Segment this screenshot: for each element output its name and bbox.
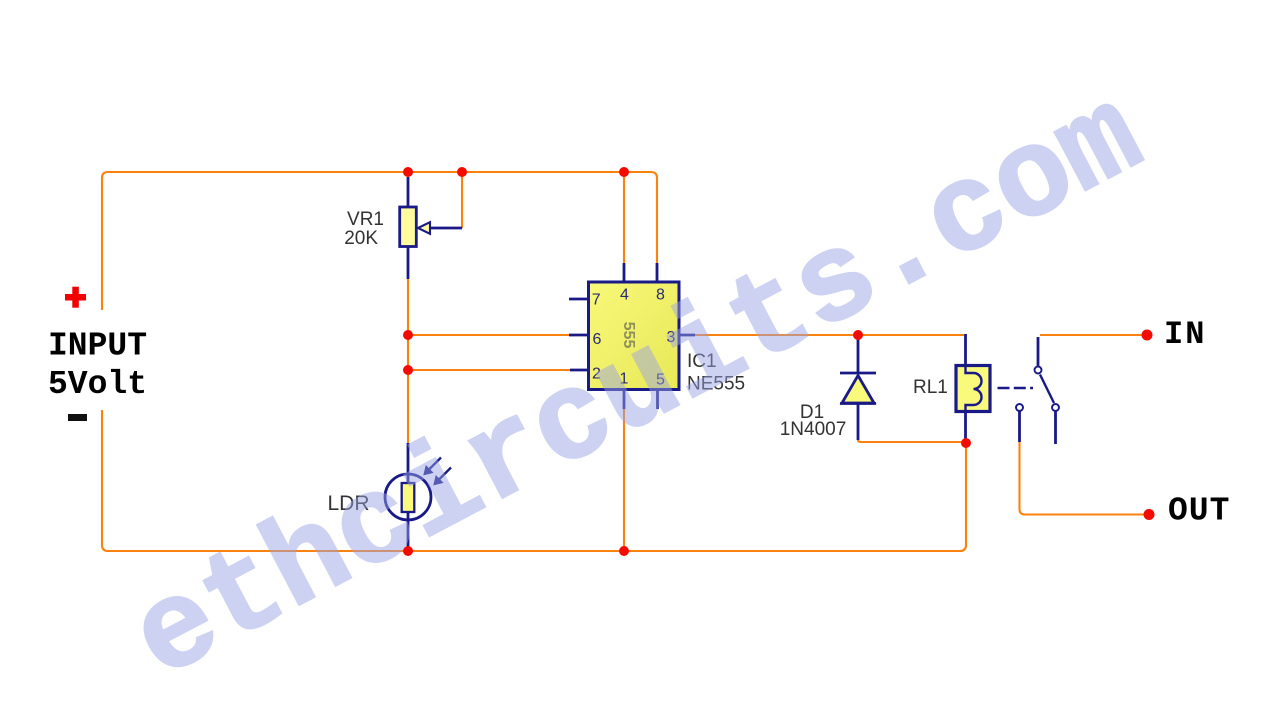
wire switch pole to IN terminal: [1040, 334, 1147, 336]
wire top rail and upper left side: [102, 172, 657, 310]
svg-text:1N4007: 1N4007: [780, 419, 847, 440]
wire node to pin2: [408, 369, 570, 371]
wire pin1 to bottom rail: [623, 409, 625, 551]
wire diode bottom to relay bottom node: [858, 440, 966, 442]
relay coil RL1: [956, 334, 990, 443]
pin 2: [592, 366, 601, 383]
svg-text:4: 4: [620, 287, 629, 304]
pin 7: [592, 292, 601, 309]
node junction top pin4: [619, 167, 629, 177]
wire switch contact to OUT terminal: [1020, 442, 1150, 515]
wire node to pin6: [408, 334, 569, 336]
label VR1 20K: [344, 209, 384, 249]
label IC1 NE555: [687, 351, 745, 395]
value label 555: [620, 322, 637, 349]
node junction pin6: [403, 330, 413, 340]
IC IC1 NE555 timer body and pins: [569, 263, 695, 409]
wire VR1 bottom to LDR top: [407, 279, 409, 443]
label INPUT 5Volt: [48, 328, 147, 404]
watermark ethcircuits.com: [112, 67, 1165, 711]
potentiometer VR1: [400, 177, 462, 279]
plus terminal mark: [65, 287, 86, 308]
pin 4: [620, 287, 629, 304]
pin 8: [656, 287, 665, 304]
relay switch SPDT: [998, 337, 1060, 444]
node junction LDR bottom: [403, 546, 413, 556]
node junction diode top: [853, 330, 863, 340]
wire lower left side and bottom rail: [102, 410, 966, 551]
label LDR: [327, 492, 369, 515]
label D1 1N4007: [780, 402, 847, 440]
label IN: [1164, 316, 1206, 353]
node terminal IN: [1142, 330, 1153, 341]
minus terminal mark: [68, 414, 87, 421]
wire VR1 wiper to top rail: [461, 172, 463, 228]
svg-text:VR1: VR1: [347, 209, 384, 230]
svg-text:IN: IN: [1164, 316, 1206, 353]
photoresistor LDR: [385, 443, 451, 548]
node junction pin1 bottom: [619, 546, 629, 556]
wire pin4 drop from top rail: [623, 172, 625, 263]
pin 5: [656, 372, 665, 389]
node junction top wiper: [457, 167, 467, 177]
node junction top VR1: [403, 167, 413, 177]
svg-text:20K: 20K: [344, 228, 378, 249]
svg-text:7: 7: [592, 292, 601, 309]
svg-text:RL1: RL1: [913, 377, 948, 398]
wire pin3 output to relay: [695, 334, 964, 336]
svg-text:5Volt: 5Volt: [48, 366, 147, 403]
label OUT: [1168, 493, 1230, 530]
node junction pin2: [403, 365, 413, 375]
label RL1: [913, 377, 948, 398]
svg-text:OUT: OUT: [1168, 493, 1230, 530]
pin 3: [667, 329, 676, 346]
svg-text:INPUT: INPUT: [48, 328, 147, 365]
pin 1: [620, 371, 629, 388]
diode D1: [840, 338, 876, 440]
pin 6: [593, 331, 602, 348]
node junction relay bottom: [961, 438, 971, 448]
node terminal OUT: [1144, 509, 1155, 520]
